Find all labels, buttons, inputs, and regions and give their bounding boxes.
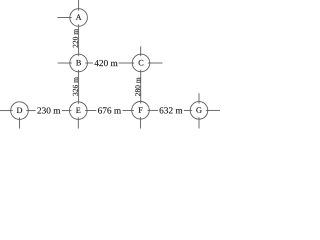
- wire stub right of C: [148, 62, 163, 64]
- node F label: [138, 107, 142, 112]
- edge label 676 m: [98, 107, 121, 113]
- node F circle: [132, 102, 150, 120]
- wire F-G left piece: [148, 109, 159, 111]
- wire stub left of B: [58, 62, 72, 64]
- node E label: [76, 108, 80, 113]
- node D circle: [11, 102, 29, 120]
- wire stub below D: [19, 117, 21, 128]
- wire stub right of G: [206, 109, 220, 111]
- wire A-B: [78, 24, 80, 56]
- node B label: [76, 60, 81, 65]
- node A circle: [70, 9, 88, 27]
- node G circle: [190, 102, 208, 120]
- edge label 230 m: [37, 107, 60, 113]
- wire stub above A: [78, 0, 80, 11]
- wire stub left of D: [0, 110, 13, 112]
- node C label: [139, 60, 144, 66]
- wire D-E left piece: [26, 110, 35, 112]
- wire stub below F: [140, 117, 142, 128]
- wire D-E right piece: [62, 110, 72, 112]
- edge label 326 m (vertical): [73, 77, 78, 95]
- wire B-C left piece: [85, 62, 93, 64]
- node A label: [76, 14, 82, 19]
- node C circle: [132, 54, 150, 72]
- wire E-F right piece: [123, 110, 134, 112]
- wire stub left of A: [57, 17, 72, 19]
- edge label 420 m: [94, 60, 117, 66]
- node B circle: [70, 54, 88, 72]
- node G label: [196, 107, 201, 113]
- edge label 632 m: [160, 107, 183, 113]
- wire E-F left piece: [85, 110, 96, 112]
- edge label 280 m (vertical): [135, 77, 140, 96]
- wire stub above G: [198, 93, 200, 103]
- wire stub below E: [77, 117, 79, 128]
- wire C-F: [140, 70, 142, 104]
- node E circle: [70, 102, 88, 120]
- wire B-C right piece: [119, 62, 135, 64]
- node D label: [17, 108, 22, 113]
- edge label 220 m (vertical): [73, 29, 78, 48]
- wire F-G right piece: [184, 109, 192, 111]
- wire B-E: [78, 70, 80, 104]
- wire stub above C: [140, 46, 142, 56]
- wire stub below G: [198, 117, 200, 128]
